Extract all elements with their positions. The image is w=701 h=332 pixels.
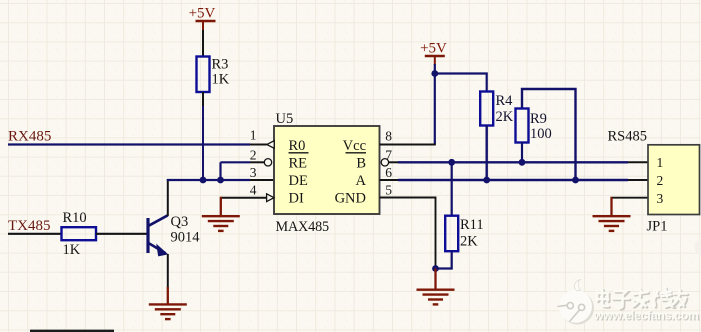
- ground Q3 emitter: [149, 287, 187, 319]
- svg-text:3: 3: [250, 165, 257, 180]
- connector JP1: [608, 129, 700, 235]
- wire Q3 emitter: [167, 254, 169, 289]
- svg-text:R0: R0: [289, 138, 306, 154]
- svg-text:100: 100: [530, 126, 552, 142]
- svg-text:2: 2: [250, 147, 257, 162]
- svg-text:Q3: Q3: [171, 214, 189, 230]
- wire A to JP1-2: [628, 179, 648, 181]
- U5 pin name Vcc: [343, 138, 366, 154]
- wire DE net: [167, 179, 274, 181]
- junction R3/DE: [200, 177, 207, 184]
- junction A/R4: [483, 177, 490, 184]
- svg-text:3: 3: [657, 191, 664, 206]
- svg-text:A: A: [356, 173, 367, 189]
- svg-text:RE: RE: [289, 155, 308, 171]
- wire R4 to A net: [486, 126, 488, 182]
- resistor R9: [516, 109, 552, 143]
- wire bottom edge: [30, 330, 114, 332]
- wire Vcc pin8: [380, 144, 436, 146]
- svg-text:1K: 1K: [212, 72, 230, 88]
- wire R10 to Q3 base: [96, 233, 147, 235]
- svg-text:MAX485: MAX485: [276, 219, 330, 235]
- junction +5V node: [431, 70, 438, 77]
- svg-text:RS485: RS485: [608, 129, 648, 145]
- wire B to R11: [451, 162, 453, 216]
- wire R3 to DE net: [202, 92, 204, 180]
- U5 pin 4 arrow: [267, 194, 274, 202]
- watermark fragment: [695, 239, 701, 256]
- wire +5V down: [434, 64, 436, 145]
- wire A net: [380, 179, 629, 181]
- svg-text:DE: DE: [289, 173, 308, 189]
- svg-text:1: 1: [657, 155, 664, 170]
- ground centre: [417, 269, 455, 305]
- svg-text:8: 8: [385, 129, 392, 144]
- wire RX485: [8, 143, 267, 145]
- resistor R10: [62, 210, 97, 258]
- junction A/R9loop: [572, 177, 579, 184]
- svg-text:1: 1: [250, 128, 257, 143]
- svg-text:U5: U5: [276, 111, 294, 127]
- svg-text:R3: R3: [212, 57, 229, 73]
- junction B/R11: [448, 159, 455, 166]
- svg-text:2: 2: [657, 173, 664, 188]
- power +5V (right): [420, 41, 447, 66]
- U5 pin 2 bubble: [264, 159, 271, 166]
- wire JP1-3 to ground: [611, 197, 649, 199]
- wire DI to ground: [221, 197, 267, 199]
- U5 pin name R0: [289, 138, 309, 154]
- svg-text:R11: R11: [460, 217, 484, 233]
- wire TX485 to R10: [8, 233, 62, 235]
- wire R9 top loop: [522, 89, 576, 180]
- watermark logo and text: [558, 280, 701, 325]
- ground DI: [202, 197, 240, 231]
- U5 pin 7 bubble: [381, 159, 388, 166]
- svg-text:2K: 2K: [496, 109, 514, 125]
- ground JP1: [593, 197, 631, 231]
- resistor R3: [197, 57, 230, 93]
- svg-text:4: 4: [250, 183, 257, 198]
- svg-text:+5V: +5V: [420, 41, 447, 57]
- U5 pin 1 arrow: [267, 141, 274, 149]
- wire GND pin5: [380, 198, 436, 269]
- resistor R11: [445, 216, 483, 252]
- svg-text:DI: DI: [289, 191, 304, 207]
- transistor Q3: [148, 214, 201, 256]
- svg-text:TX485: TX485: [8, 218, 51, 234]
- svg-text:1K: 1K: [63, 242, 81, 258]
- svg-text:GND: GND: [335, 191, 366, 207]
- svg-text:5: 5: [385, 183, 392, 198]
- svg-text:R4: R4: [496, 93, 514, 109]
- svg-text:Vcc: Vcc: [343, 138, 366, 154]
- IC U5 MAX485 body: [274, 111, 380, 235]
- junction RE/DE: [217, 177, 224, 184]
- svg-text:9014: 9014: [171, 230, 201, 246]
- svg-text:B: B: [356, 155, 366, 171]
- svg-text:6: 6: [385, 165, 392, 180]
- junction gnd node: [432, 265, 439, 272]
- wire B net: [388, 161, 628, 163]
- svg-text:R9: R9: [530, 111, 547, 127]
- wire +5V to R3: [202, 30, 204, 57]
- svg-text:www.elecfans.com: www.elecfans.com: [593, 309, 699, 323]
- svg-text:R10: R10: [63, 210, 87, 226]
- svg-text:+5V: +5V: [189, 6, 216, 22]
- power +5V (left): [189, 6, 216, 32]
- svg-text:RX485: RX485: [8, 129, 51, 145]
- junction B/R9: [519, 159, 526, 166]
- svg-text:2K: 2K: [460, 234, 478, 250]
- resistor R4: [480, 92, 514, 126]
- svg-text:JP1: JP1: [647, 219, 668, 235]
- wire +5V to R4: [435, 74, 487, 93]
- wire RE riser: [221, 162, 265, 180]
- wire R11 to gnd node: [436, 251, 452, 268]
- wire R9 to B net: [521, 143, 523, 163]
- wire Q3 collector: [167, 179, 169, 216]
- wire B to JP1-1: [628, 161, 648, 163]
